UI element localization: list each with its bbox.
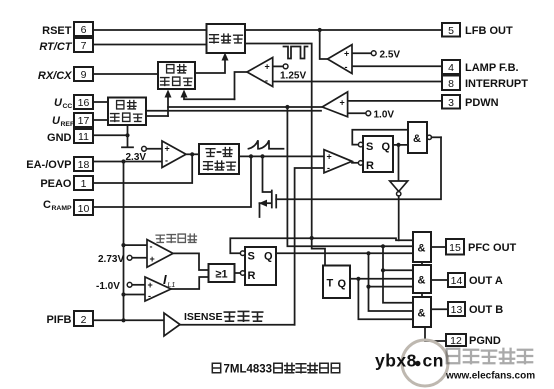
svg-text:cn: cn [423,351,444,371]
svg-text:8: 8 [448,78,454,90]
wire GND pin to vertical [93,134,128,136]
svg-text:&: & [418,275,426,287]
pin 2 box [74,311,93,326]
AND gate OUT A [413,265,431,293]
svg-text:LAMP F.B.: LAMP F.B. [465,62,519,74]
svg-text:9: 9 [81,69,87,81]
wire PFC AND output to pin 15 [431,246,446,248]
terminal 1.0V source circle [366,111,371,116]
wire IL1 minus input from EA vertical [124,294,146,296]
svg-text:17: 17 [78,115,90,127]
wire CRAMP pin to ramp node [93,156,251,207]
wire preheat timer1 output lower line [146,110,321,112]
svg-text:7: 7 [81,40,87,52]
node junction at OUT A bottom [366,285,370,289]
svg-text:-: - [165,156,168,166]
wire latch2 S loop long line to PFC AND gate top input [230,238,413,253]
svg-text:Q: Q [264,251,273,263]
ISENSE amplifier triangle [164,313,180,336]
square wave symbol [284,47,308,59]
OR gate >=1 box [209,264,235,282]
svg-text:PIFB: PIFB [46,314,71,326]
pin 9 box [74,67,93,81]
transistor M1 source stub down [259,203,261,217]
svg-text:&: & [418,243,426,255]
pin 12 box [446,334,466,347]
svg-text:PFC OUT: PFC OUT [468,242,517,254]
wire 1.25V comparator output down to line [235,72,248,99]
svg-text:Q: Q [338,278,347,290]
node junction EA net [121,159,125,163]
terminal 2.3V source circle [142,146,147,151]
svg-text:5: 5 [448,25,454,37]
node junction Q to inverter [396,143,400,147]
comparator OVP (right pointing) [147,240,173,268]
terminal -1.0V source circle [127,282,132,287]
wire 2.3V to comparator plus input [146,148,162,150]
wire latch1 S feedback loop to AND gate input [352,130,408,145]
node junction latch2 Q tap [366,251,370,255]
wire 1.25V comparator plus to source [273,65,284,67]
latch1 S input bubble [358,142,363,147]
svg-text:7ML4833: 7ML4833 [224,364,273,376]
svg-text:3: 3 [448,97,454,109]
wire RSET net: pin6 to oscillator and on to LFB OUT pin5 [93,29,442,31]
wire OR gate output to latch2 R [235,272,241,274]
svg-text:+: + [165,144,170,154]
inverter output bubble [397,192,401,196]
SR latch 2 box [245,247,276,285]
wire preheat timer 2 output up into oscillator [195,56,225,73]
svg-text:-: - [345,62,348,72]
wire T Q leg to OUT B bottom input [358,279,413,320]
wire PDWN comparator plus to pin 3 [347,100,442,102]
node junction at PIFB line [121,318,125,322]
svg-text:OUT A: OUT A [469,275,503,287]
wire OUT B AND bottom to PGND pin 12 [425,327,446,341]
svg-text:-: - [148,291,151,301]
preheat timer 2 box [158,62,195,89]
node junction at OVP minus [121,243,125,247]
svg-text:T: T [327,278,334,290]
comparator 1.25V (left pointing) [247,58,273,87]
latch2 S input bubble [240,251,245,256]
SR latch 1 box [363,136,393,172]
svg-text:RAMP: RAMP [52,205,72,212]
svg-text:C: C [43,199,51,211]
svg-text:-: - [327,163,330,173]
pin 7 box [74,38,93,52]
svg-text:10: 10 [78,203,90,215]
svg-text:1.25V: 1.25V [280,71,306,82]
wire ISENSE amplifier output [180,324,295,326]
svg-text:ybx8: ybx8 [375,351,417,371]
arrowhead into oscillator bottom [222,53,229,61]
wire IL1 comparator output to OR gate [171,277,209,289]
ground symbol bar [122,146,133,148]
wire latch2 Q output to PFC AND bottom input [276,252,413,254]
pin 16 box [74,95,93,109]
svg-text:RSET: RSET [42,25,72,37]
pin 11 box [74,129,93,143]
svg-text:-: - [265,76,268,86]
arrowhead 1 into preheat2 bottom [165,90,172,98]
wire INTERRUPT: 1.25V comparator minus to pin 8 [273,81,442,83]
node junction PDWN line branch down [285,105,289,109]
wire stub preheat1 second output [146,115,168,117]
svg-text:14: 14 [451,275,463,287]
AND gate OUT B [413,297,431,327]
svg-text:4: 4 [448,62,454,74]
stub between PFC and OUTA gates [421,262,423,265]
V-A converter box [199,144,239,174]
svg-text:+: + [148,280,153,290]
terminal 1.25V source circle [283,64,288,69]
svg-text:PGND: PGND [469,335,501,347]
node junction T Q tap [356,277,360,281]
wire AND1 output with bubble to corner [427,135,431,139]
pin 10 box [74,200,93,215]
wire inverter drop from Q [398,145,400,181]
wire RT/CT net: pin7 to oscillator, right segment down long vertical to T flip-flop [93,44,325,266]
node junction CRAMP riser [249,154,253,158]
pin 13 box [448,302,465,316]
wire V-A converter output to latch comparator plus [239,155,324,157]
svg-text:PEAO: PEAO [40,178,72,190]
wire vertical x383 feeding OUT A top and OUT B top [383,246,413,302]
svg-text:EA-/OVP: EA-/OVP [26,159,71,171]
pin 6 box [74,22,93,36]
latch2 R input bubble [240,271,245,276]
svg-text:REF: REF [61,121,75,128]
wire -1.0V source to IL1 plus input [132,284,145,286]
svg-text:+: + [265,62,270,72]
wire Ucc to preheat timer 1 [93,101,108,103]
transistor M1 MOSFET channel bar [271,191,273,208]
svg-text:13: 13 [451,304,463,316]
oscillator box U-OSC [207,24,246,53]
svg-text:GND: GND [47,132,72,144]
wire latch1 R comparator output to R input [352,162,358,164]
transistor M1 source line with arrow [260,202,272,204]
svg-text:www.elecfans.com: www.elecfans.com [445,371,535,382]
svg-text:R: R [248,270,256,282]
watermark elecfans CJK [447,349,533,363]
pin 14 box [448,273,465,287]
label ISENSE amplifier [184,311,263,323]
stub between OUTA and OUTB gates [421,293,423,297]
caption text [212,363,339,375]
svg-text:15: 15 [449,242,461,254]
svg-text:RT/CT: RT/CT [39,41,72,53]
watermark circle logo [402,340,448,386]
svg-text:+: + [344,49,349,59]
pin 1 box [74,176,93,190]
node junction clock with S-line [310,236,314,240]
wire OVP comparator output to OR gate [173,253,209,270]
wire vertical x368 feeding OUT A bottom and OUT B middle [369,253,414,311]
svg-text:2.5V: 2.5V [380,50,401,61]
inverter triangle pointing down [390,181,408,192]
svg-text:CC: CC [63,103,73,110]
sawtooth waveform symbol [249,140,284,148]
svg-text:INTERRUPT: INTERRUPT [465,78,528,90]
wire 2.5V comparator plus to source [352,52,371,54]
pin 3 box [442,95,460,109]
node junction MOSFET drain riser [260,154,264,158]
svg-text:-: - [150,242,153,252]
svg-text:-: - [340,109,343,119]
wire Uref to preheat timer 1 [93,119,108,121]
pin 18 box [74,157,93,171]
label OVP text (gray) [156,234,196,242]
comparator IL1 (right pointing) [145,277,171,301]
svg-text:S: S [366,141,373,153]
svg-text:PDWN: PDWN [465,97,499,109]
svg-text:1: 1 [81,178,87,190]
wire long left vertical EA net down to PIFB line [123,162,125,321]
pin 17 box [74,113,93,127]
wire preheat1 bottom to ground [127,125,129,147]
svg-text:2.73V: 2.73V [98,254,124,265]
wire latch1 Q output to AND gate [393,144,408,146]
wire riser arrow 2 into preheat timer 2 [184,94,235,100]
terminal 2.73V source circle [127,255,132,260]
node junction at OUT A top [381,268,385,272]
transistor M1 arrow [259,200,267,207]
svg-text:I: I [163,272,167,287]
pin 15 box [446,239,464,255]
svg-text:≥1: ≥1 [215,269,227,281]
node junction ramp tap [381,244,385,248]
svg-text:S: S [248,251,255,263]
svg-text:OUT B: OUT B [469,304,503,316]
svg-text:+: + [150,254,155,264]
wire PDWN net vertical down and to PFC AND middle input [287,107,413,246]
svg-text:R: R [366,160,374,172]
wire LAMP F.B.: 2.5V comparator minus to pin 4 [352,65,442,67]
wire OVP minus input from EA vertical [124,244,148,246]
wire branch down to 2.5V comparator output [320,30,328,59]
svg-text:Q: Q [382,141,391,153]
svg-text:&: & [418,308,426,320]
AND gate PFC [413,232,431,262]
svg-text:6: 6 [81,24,87,36]
wire PDWN comparator minus to source [347,112,366,114]
node junction GND line [125,133,129,137]
svg-text:LFB OUT: LFB OUT [465,25,513,37]
wire 2.3V comparator output to V-A converter [186,153,199,155]
T flip-flop box [323,266,350,299]
wire PIFB pin to ISENSE amplifier input [93,319,164,321]
wire OUT B AND output to pin 13 [431,308,448,310]
svg-text:+: + [340,98,345,108]
pin 8 box [442,76,460,91]
pin 4 box [442,60,460,74]
comparator 2.3V (right pointing) [162,141,186,168]
wire PEAO up to comparator output net [93,154,192,183]
latch1 R input bubble [358,161,363,166]
pin 5 box [442,23,460,37]
wire OUT A AND output to pin 14 [431,279,448,281]
terminal 2.5V source circle [371,51,376,56]
svg-text:12: 12 [450,335,462,347]
AND gate U1 top [408,122,427,153]
svg-text:RX/CX: RX/CX [38,70,72,82]
comparator latch1-R (right pointing) [324,150,352,173]
svg-text:2: 2 [81,314,87,326]
wire MOSFET drain connection [263,156,272,192]
wire MOSFET gate to AND gate output [276,137,441,199]
svg-text:&: & [413,133,421,145]
wire T flipflop Q to OUT A AND middle input [350,278,413,280]
node junction PEAO tap [190,152,194,156]
preheat timer 1 box [108,98,146,126]
svg-text:1.0V: 1.0V [374,110,395,121]
svg-text:16: 16 [78,97,90,109]
wire inverter output down to S-line [398,196,400,240]
transistor M1 gate bar [275,195,277,208]
wire PDWN comparator output line to arrow riser [168,106,322,108]
wire 2.73V source to OVP plus input [132,257,147,259]
comparator 2.5V (left pointing) [328,45,353,74]
node junction at IL1 minus [121,292,125,296]
wire riser arrow 1 into preheat timer 2 [167,94,169,117]
svg-text:18: 18 [78,159,90,171]
svg-text:ISENSE: ISENSE [184,311,223,323]
comparator PDWN (left pointing) [322,92,347,119]
arrowhead 2 into preheat2 bottom [181,90,188,98]
wire RX/CX to preheat timer 2 [93,73,158,75]
svg-text:+: + [327,152,332,162]
wire latch1 R comparator minus input down to ISENSE output [295,168,324,325]
svg-text:L1: L1 [168,282,176,289]
node junction on RSET/LFB line [318,28,322,32]
wire EA-/OVP to 2.3V comparator minus input [93,161,162,163]
svg-text:-1.0V: -1.0V [96,281,120,292]
svg-text:11: 11 [78,131,89,143]
